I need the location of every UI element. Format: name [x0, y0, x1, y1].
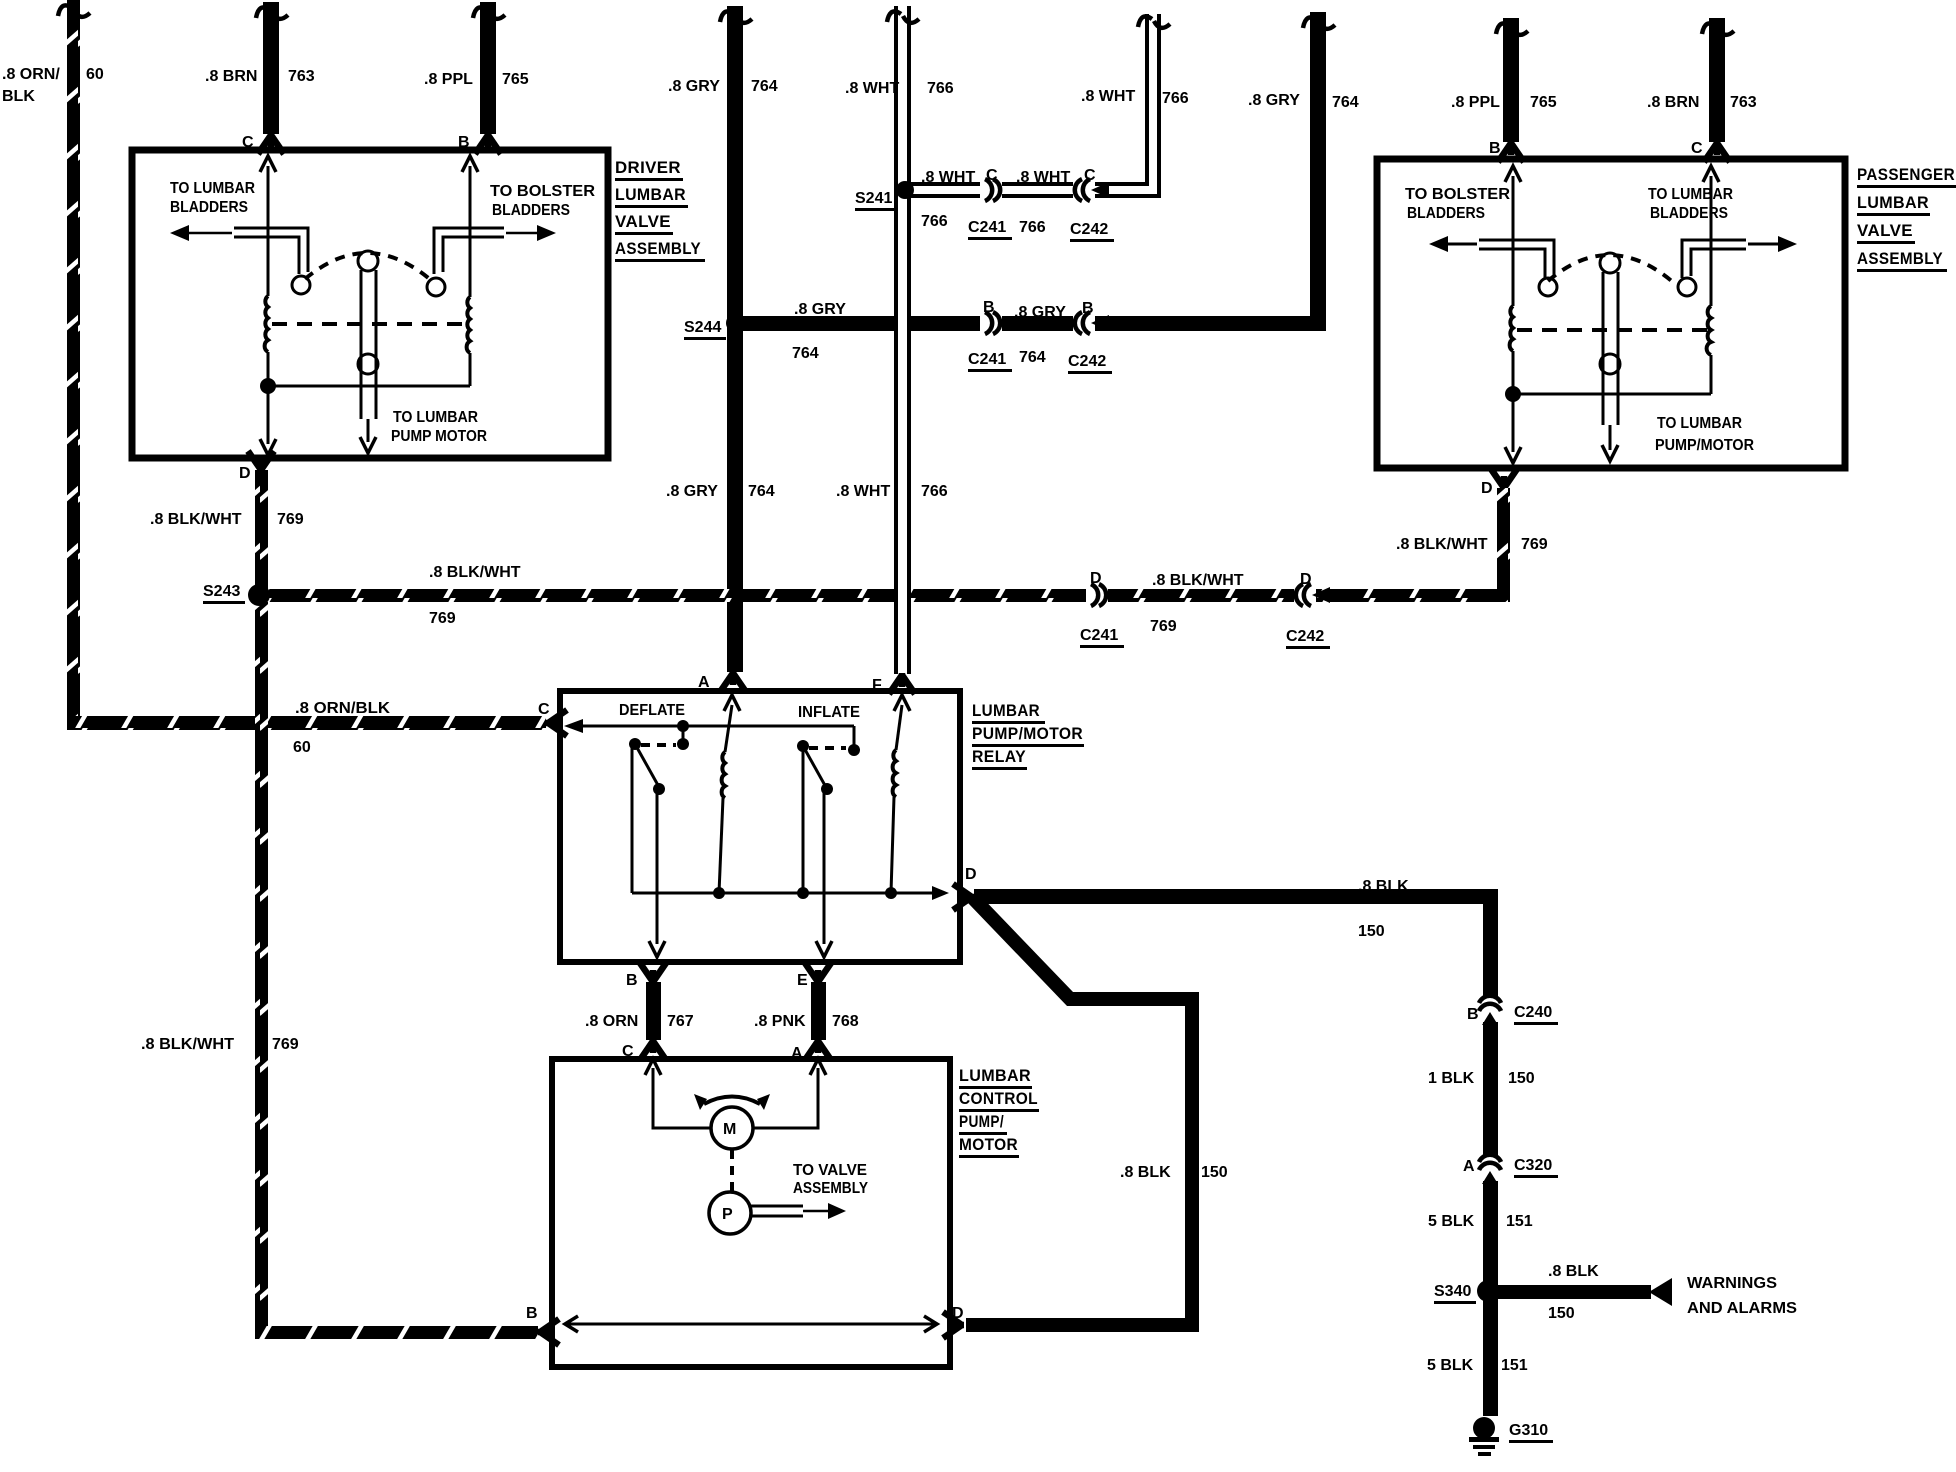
svg-text:.8 ORN/: .8 ORN/ [2, 66, 60, 83]
svg-text:D: D [965, 866, 977, 883]
svg-text:C320: C320 [1514, 1157, 1552, 1174]
svg-text:VALVE: VALVE [615, 212, 671, 231]
svg-text:D: D [1090, 570, 1102, 587]
svg-text:766: 766 [1162, 90, 1189, 107]
svg-text:763: 763 [288, 68, 315, 85]
svg-text:C241: C241 [968, 219, 1006, 236]
svg-text:C242: C242 [1070, 221, 1108, 238]
svg-text:766: 766 [927, 80, 954, 97]
svg-text:S243: S243 [203, 583, 240, 600]
svg-text:D: D [952, 1305, 964, 1322]
svg-text:766: 766 [1019, 219, 1046, 236]
svg-text:.8 GRY: .8 GRY [666, 483, 718, 500]
svg-text:D: D [239, 465, 251, 482]
svg-text:G310: G310 [1509, 1422, 1548, 1439]
svg-text:769: 769 [272, 1036, 299, 1053]
svg-text:C: C [242, 134, 254, 151]
svg-text:BLADDERS: BLADDERS [1650, 205, 1728, 222]
svg-text:C: C [986, 167, 998, 184]
svg-text:769: 769 [1521, 536, 1548, 553]
svg-text:E: E [797, 972, 808, 989]
svg-text:PUMP/MOTOR: PUMP/MOTOR [1655, 437, 1754, 454]
svg-text:M: M [723, 1121, 736, 1138]
svg-text:S244: S244 [684, 319, 721, 336]
svg-text:B: B [983, 299, 995, 316]
svg-text:.8 BLK/WHT: .8 BLK/WHT [429, 564, 521, 581]
svg-text:A: A [1463, 1158, 1475, 1175]
svg-text:.8 ORN: .8 ORN [585, 1013, 638, 1030]
svg-text:.8 WHT: .8 WHT [1081, 88, 1135, 105]
svg-text:TO LUMBAR: TO LUMBAR [1657, 415, 1742, 432]
svg-text:C240: C240 [1514, 1004, 1552, 1021]
svg-text:764: 764 [792, 345, 819, 362]
svg-text:769: 769 [429, 610, 456, 627]
svg-text:TO LUMBAR: TO LUMBAR [393, 409, 478, 426]
svg-text:769: 769 [1150, 618, 1177, 635]
svg-text:C: C [1691, 140, 1703, 157]
svg-text:S340: S340 [1434, 1283, 1471, 1300]
svg-text:BLADDERS: BLADDERS [1407, 205, 1485, 222]
svg-text:.8 BLK: .8 BLK [1358, 878, 1409, 895]
svg-text:MOTOR: MOTOR [959, 1135, 1018, 1154]
svg-text:.8 BLK/WHT: .8 BLK/WHT [1152, 572, 1244, 589]
svg-text:.8 WHT: .8 WHT [836, 483, 890, 500]
svg-text:768: 768 [832, 1013, 859, 1030]
svg-text:LUMBAR: LUMBAR [972, 701, 1040, 720]
svg-text:.8 GRY: .8 GRY [794, 301, 846, 318]
svg-text:C: C [622, 1043, 634, 1060]
svg-text:.8 GRY: .8 GRY [1248, 92, 1300, 109]
svg-text:.8 GRY: .8 GRY [1014, 304, 1066, 321]
svg-text:PASSENGER: PASSENGER [1857, 165, 1955, 184]
svg-text:INFLATE: INFLATE [798, 704, 860, 721]
svg-text:TO VALVE: TO VALVE [793, 1162, 867, 1179]
svg-text:.8 WHT: .8 WHT [845, 80, 899, 97]
svg-text:764: 764 [1332, 94, 1359, 111]
svg-text:764: 764 [748, 483, 775, 500]
svg-text:765: 765 [502, 71, 529, 88]
svg-text:TO BOLSTER: TO BOLSTER [490, 183, 595, 200]
svg-text:150: 150 [1508, 1070, 1535, 1087]
svg-text:TO BOLSTER: TO BOLSTER [1405, 186, 1510, 203]
svg-text:.8 GRY: .8 GRY [668, 78, 720, 95]
svg-text:C: C [538, 701, 550, 718]
svg-text:764: 764 [751, 78, 778, 95]
svg-text:P: P [722, 1206, 733, 1223]
svg-text:763: 763 [1730, 94, 1757, 111]
svg-text:765: 765 [1530, 94, 1557, 111]
svg-text:.8 PPL: .8 PPL [1451, 94, 1500, 111]
svg-text:.8 WHT: .8 WHT [1016, 169, 1070, 186]
svg-text:C242: C242 [1286, 628, 1324, 645]
svg-text:A: A [791, 1045, 803, 1062]
svg-text:PUMP/: PUMP/ [959, 1112, 1004, 1131]
svg-text:B: B [1489, 140, 1501, 157]
svg-text:D: D [1481, 480, 1493, 497]
svg-text:.8 BLK/WHT: .8 BLK/WHT [1396, 536, 1488, 553]
svg-text:PUMP MOTOR: PUMP MOTOR [391, 428, 487, 445]
svg-text:.8 WHT: .8 WHT [921, 169, 975, 186]
svg-text:BLADDERS: BLADDERS [170, 199, 248, 216]
svg-text:150: 150 [1201, 1164, 1228, 1181]
svg-text:1 BLK: 1 BLK [1428, 1070, 1475, 1087]
svg-text:B: B [1082, 300, 1094, 317]
svg-text:150: 150 [1358, 923, 1385, 940]
svg-text:F: F [872, 677, 882, 694]
svg-text:.8 ORN/BLK: .8 ORN/BLK [295, 700, 390, 717]
svg-text:.8 BRN: .8 BRN [1647, 94, 1699, 111]
svg-text:.8 BRN: .8 BRN [205, 68, 257, 85]
svg-text:B: B [626, 972, 638, 989]
svg-text:.8 PNK: .8 PNK [754, 1013, 806, 1030]
svg-text:151: 151 [1506, 1213, 1533, 1230]
svg-text:60: 60 [293, 739, 311, 756]
svg-text:C: C [1084, 167, 1096, 184]
svg-text:60: 60 [86, 66, 104, 83]
svg-text:S241: S241 [855, 190, 892, 207]
svg-text:AND ALARMS: AND ALARMS [1687, 1300, 1797, 1317]
svg-text:.8 PPL: .8 PPL [424, 71, 473, 88]
svg-text:B: B [1467, 1006, 1479, 1023]
svg-text:DRIVER: DRIVER [615, 158, 681, 177]
svg-text:LUMBAR: LUMBAR [1857, 193, 1929, 212]
svg-text:C241: C241 [1080, 627, 1118, 644]
svg-text:C241: C241 [968, 351, 1006, 368]
svg-text:BLADDERS: BLADDERS [492, 202, 570, 219]
svg-text:VALVE: VALVE [1857, 221, 1913, 240]
svg-text:DEFLATE: DEFLATE [619, 702, 685, 719]
svg-text:.8 BLK/WHT: .8 BLK/WHT [141, 1036, 234, 1053]
svg-text:WARNINGS: WARNINGS [1687, 1275, 1777, 1292]
svg-text:.8 BLK: .8 BLK [1120, 1164, 1171, 1181]
svg-text:151: 151 [1501, 1357, 1528, 1374]
svg-text:5 BLK: 5 BLK [1427, 1357, 1474, 1374]
svg-text:B: B [526, 1305, 538, 1322]
svg-text:LUMBAR: LUMBAR [959, 1066, 1031, 1085]
svg-text:TO LUMBAR: TO LUMBAR [1648, 186, 1733, 203]
svg-text:.8 BLK/WHT: .8 BLK/WHT [150, 511, 242, 528]
svg-text:D: D [1300, 571, 1312, 588]
svg-text:B: B [458, 134, 470, 151]
svg-text:CONTROL: CONTROL [959, 1089, 1038, 1108]
svg-text:766: 766 [921, 213, 948, 230]
svg-text:5 BLK: 5 BLK [1428, 1213, 1475, 1230]
svg-text:766: 766 [921, 483, 948, 500]
svg-text:TO LUMBAR: TO LUMBAR [170, 180, 255, 197]
svg-text:ASSEMBLY: ASSEMBLY [1857, 249, 1943, 268]
svg-text:.8 BLK: .8 BLK [1548, 1263, 1599, 1280]
svg-text:764: 764 [1019, 349, 1046, 366]
svg-text:150: 150 [1548, 1305, 1575, 1322]
svg-text:PUMP/MOTOR: PUMP/MOTOR [972, 724, 1083, 743]
svg-text:RELAY: RELAY [972, 747, 1026, 766]
svg-text:769: 769 [277, 511, 304, 528]
svg-text:767: 767 [667, 1013, 694, 1030]
svg-text:ASSEMBLY: ASSEMBLY [615, 239, 701, 258]
svg-text:ASSEMBLY: ASSEMBLY [793, 1180, 868, 1197]
svg-text:A: A [698, 674, 710, 691]
svg-text:LUMBAR: LUMBAR [615, 185, 686, 204]
svg-text:BLK: BLK [2, 88, 35, 105]
svg-text:C242: C242 [1068, 353, 1106, 370]
